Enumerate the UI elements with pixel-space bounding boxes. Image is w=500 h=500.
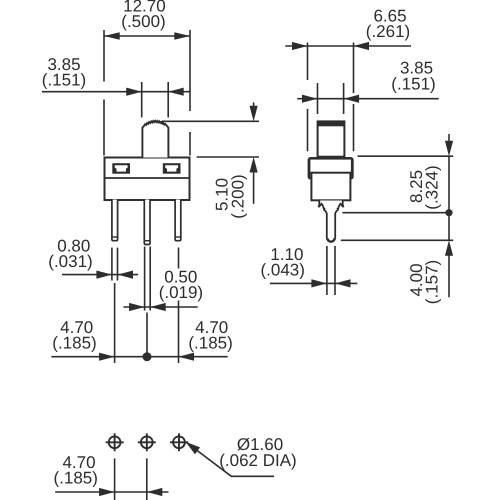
svg-text:(.185): (.185) — [52, 333, 96, 352]
dim line 4.70 bottom — [55, 491, 168, 493]
hole extension line 1 — [114, 458, 116, 500]
dim line 6.65 — [285, 45, 411, 47]
svg-text:(.157): (.157) — [423, 260, 442, 304]
svg-text:(.151): (.151) — [391, 75, 435, 94]
actuator side view — [318, 121, 345, 156]
hole 1 — [106, 433, 124, 451]
svg-text:(.500): (.500) — [121, 12, 165, 31]
svg-text:(.185): (.185) — [53, 469, 97, 488]
svg-text:(.261): (.261) — [366, 22, 410, 41]
dim line 12.70 — [104, 35, 190, 37]
hole 3 — [170, 433, 188, 451]
knob extension lines (3.85 left) — [141, 82, 143, 118]
6.65 extension line right — [353, 43, 355, 94]
svg-text:(.151): (.151) — [42, 71, 86, 90]
dim 12.70 extension line left — [103, 30, 105, 82]
8.25 top reference line — [358, 155, 454, 157]
pin2 center extension line — [146, 313, 148, 358]
dim line 4.70 lower left — [51, 356, 114, 358]
dim line 1.10 — [270, 282, 357, 284]
pin side view with barbs — [319, 201, 344, 243]
pin1 edge extension lines (0.80) — [111, 248, 113, 281]
svg-text:(.031): (.031) — [48, 252, 92, 271]
actuator black cap — [318, 121, 345, 126]
6.65 extension line left — [307, 43, 309, 81]
dim line 0.50 — [123, 306, 197, 308]
actuator knob front view (knurled dome) — [142, 121, 168, 158]
svg-text:(.062 DIA): (.062 DIA) — [219, 451, 296, 470]
hole diameter leader — [187, 443, 275, 477]
pin 1 front view — [112, 200, 118, 241]
1.10 shaft extension lines — [326, 246, 328, 295]
dim 5.10 top reference line (actuator top) — [162, 120, 259, 122]
pin 3 front view — [175, 200, 181, 241]
dim vertical line 8.25/4.00 — [448, 134, 450, 141]
svg-text:(.200): (.200) — [229, 174, 248, 218]
dim line 4.70 lower right — [115, 356, 228, 358]
8.25 bottom reference line (seating plane) — [342, 212, 449, 214]
window slot 1 — [112, 163, 130, 174]
pin1 center extension line — [114, 283, 116, 363]
pin tip inner arc — [328, 238, 334, 241]
switch body side view — [311, 173, 350, 201]
svg-text:(.324): (.324) — [423, 165, 442, 209]
dim 5.10 vertical line with arrows — [253, 102, 255, 107]
switch body front view — [105, 158, 190, 201]
dim line 0.80 — [62, 274, 138, 276]
svg-text:(.019): (.019) — [159, 283, 203, 302]
dim 5.10 bottom reference line (body top) — [197, 156, 259, 158]
4.00 bottom reference line (pin tip) — [341, 239, 453, 241]
hole extension line 2 — [146, 458, 148, 500]
reference dot (pin2 center) — [143, 352, 152, 361]
pin2 edge extension lines (0.50) — [144, 247, 146, 311]
pin3 center extension line — [178, 248, 180, 269]
dim line 3.85 right — [297, 98, 439, 100]
pin 2 front view (middle, longer) — [144, 200, 150, 245]
dim line 3.85 left — [42, 91, 190, 93]
body divider line — [105, 177, 190, 179]
reference dot (seating plane) — [445, 209, 452, 216]
dim 12.70 extension line right — [189, 30, 191, 111]
metal frame side view — [308, 157, 354, 180]
svg-text:(.043): (.043) — [260, 261, 304, 280]
3.85 right extension lines — [317, 83, 319, 114]
hole 2 — [138, 433, 156, 451]
window slot 2 — [163, 163, 181, 174]
svg-text:(.185): (.185) — [188, 333, 232, 352]
